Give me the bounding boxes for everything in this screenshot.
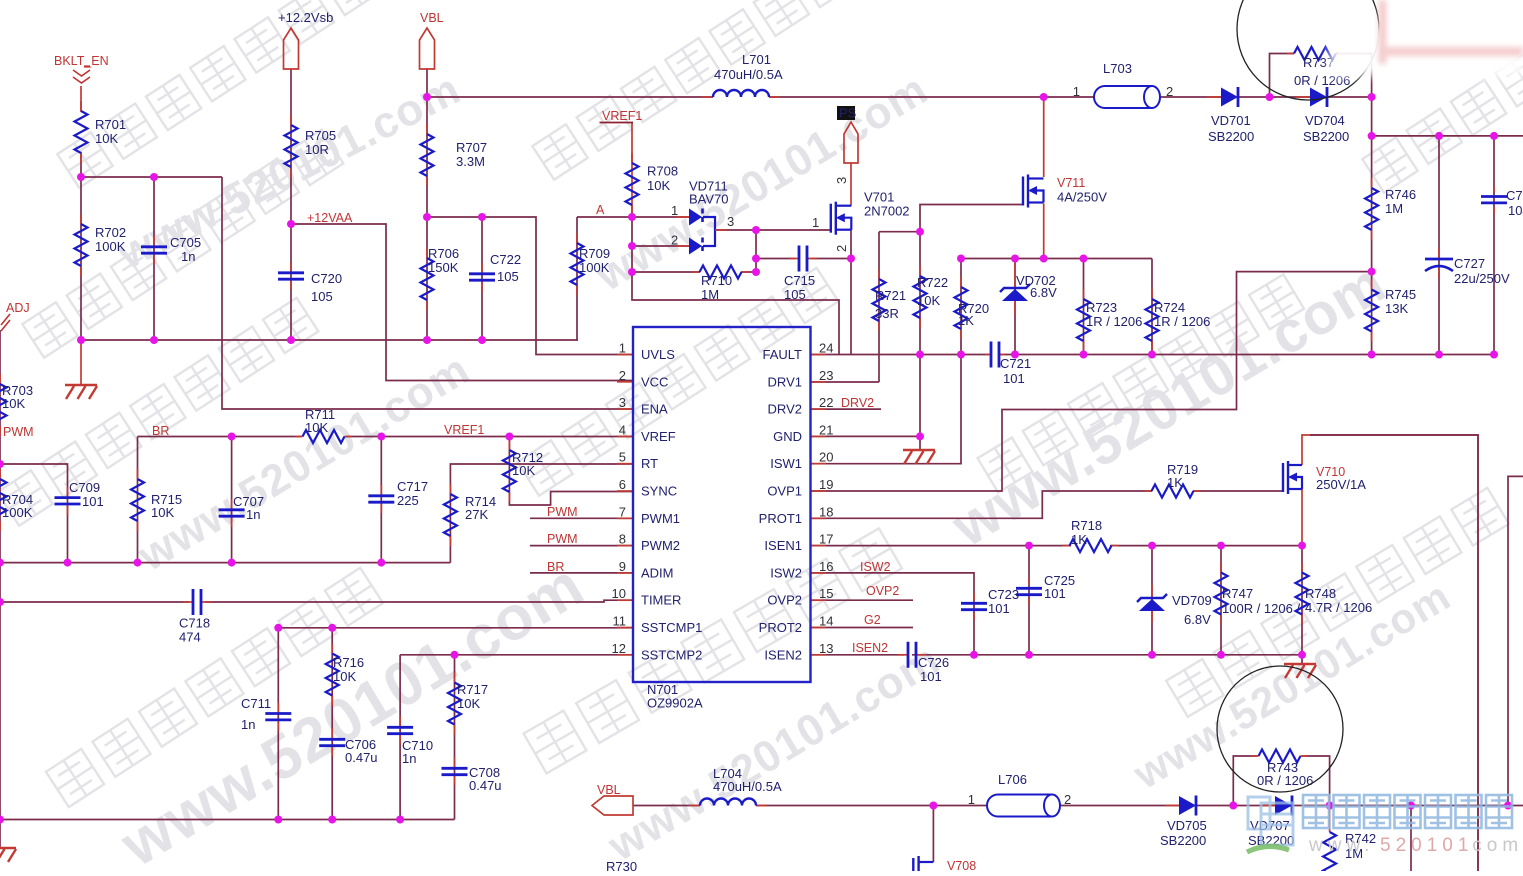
svg-text:C711: C711 [241,696,271,711]
svg-text:R706: R706 [428,246,459,261]
wire C722 branch [481,217,483,340]
svg-text:1K: 1K [1167,475,1183,490]
resistor R747 [1215,563,1301,625]
resistor R724 [1146,289,1211,351]
wire ENA run [222,177,632,409]
svg-text:C726: C726 [918,655,949,670]
svg-text:SB2200: SB2200 [1160,833,1206,848]
svg-text:2: 2 [1064,792,1071,807]
wire C707 column [231,437,233,563]
svg-text:BR: BR [152,424,169,438]
wire SSTCMP1 row [278,627,632,629]
wire R742 drop [1329,806,1331,833]
svg-text:C720: C720 [311,271,342,286]
svg-text:R746: R746 [1385,187,1416,202]
diode VD701 [1207,87,1254,144]
wire gate2 node [879,231,920,233]
capacitor C715 [784,246,817,303]
svg-text:100K: 100K [579,260,610,275]
wire +12.2Vsb column [290,69,292,340]
svg-text:L706: L706 [998,772,1027,787]
svg-text:1: 1 [812,215,819,230]
logo bottom right [1247,795,1523,856]
svg-text:105: 105 [497,269,519,284]
svg-text:24: 24 [819,341,833,356]
wire R721 column [878,232,880,382]
wire R710 right [741,271,756,273]
wire node to C705/ENA branch [81,176,222,178]
wire R723 column [1083,259,1085,355]
power +12.2Vsb [278,10,333,69]
svg-text:3: 3 [834,177,849,184]
svg-text:ADIM: ADIM [641,565,674,580]
capacitor C707 [219,494,264,527]
svg-text:PS: PS [839,106,857,121]
capacitor C721 [985,342,1031,387]
svg-text:R723: R723 [1086,300,1117,315]
svg-text:10K: 10K [305,420,328,435]
wire VREF1 bus [346,436,632,438]
svg-text:PWM: PWM [3,425,34,439]
wire pin3 node down [755,230,757,272]
ground (pin21) [903,449,935,451]
net PS [837,106,858,164]
svg-text:10K: 10K [917,293,940,308]
resistor R703 [0,374,33,436]
svg-text:SB2200: SB2200 [1303,129,1349,144]
wire BKLT_EN to R701 [80,86,82,112]
wire TIMER right [205,600,632,602]
svg-text:100R / 1206 /: 100R / 1206 / [1222,601,1300,616]
wire V710 drain run [1302,435,1478,871]
svg-text:SB2200: SB2200 [1208,129,1254,144]
R743 bypass [1233,756,1257,806]
svg-text:7: 7 [619,504,626,519]
svg-text:470uH/0.5A: 470uH/0.5A [713,779,782,794]
svg-text:R724: R724 [1154,300,1185,315]
svg-text:1n: 1n [181,249,195,264]
svg-text:2: 2 [671,233,678,248]
svg-text:R717: R717 [457,682,488,697]
svg-text:1R / 1206: 1R / 1206 [1086,314,1142,329]
svg-text:14: 14 [819,614,833,629]
blur patch top right [1330,0,1523,76]
svg-text:C715: C715 [784,273,815,288]
svg-text:ISW2: ISW2 [770,565,802,580]
capacitor C725 [1016,573,1075,605]
wire C717 column [380,437,382,563]
svg-text:ISEN2: ISEN2 [852,641,888,655]
wire R746/R745 column [1371,136,1373,355]
svg-text:23: 23 [819,368,833,383]
svg-text:PROT1: PROT1 [759,511,802,526]
wire PWM1 stub [530,517,632,519]
resistor R717 [448,673,488,735]
svg-text:C723: C723 [988,587,1019,602]
svg-text:ISEN2: ISEN2 [764,647,802,662]
wire G2 stub [811,627,913,629]
svg-text:0.47u: 0.47u [469,778,502,793]
wire C725 column [1028,546,1030,655]
wire TIMER left [0,601,189,603]
resistor R737 [1287,47,1350,88]
wire OVP2 stub [811,599,913,601]
svg-text:ISW1: ISW1 [770,456,802,471]
wire R710 left [632,271,700,273]
svg-text:R721: R721 [875,288,906,303]
svg-text:10K: 10K [95,131,118,146]
wire ISEN1 right of R718 [1110,545,1302,547]
svg-text:+12.2Vsb: +12.2Vsb [278,10,333,25]
resistor R743 [1252,750,1314,789]
wire ISEN2 bus [912,654,1302,656]
resistor R715 [131,469,182,531]
ground bus left [81,339,578,341]
power VBL [420,11,444,69]
svg-text:3: 3 [727,214,734,229]
wire ISEN2 left [811,654,904,656]
wire top right drop [1371,97,1373,136]
diode VD705 [1160,796,1207,849]
svg-text:ISW2: ISW2 [860,560,891,574]
wire node A segment [577,216,632,218]
svg-text:10K: 10K [647,178,670,193]
svg-text:R748: R748 [1305,586,1336,601]
wire gnd drop [919,355,921,451]
svg-text:VD704: VD704 [1305,113,1345,128]
svg-text:VREF1: VREF1 [444,423,484,437]
svg-text:100K: 100K [2,505,33,520]
wire V710 drain maroon part [1310,435,1478,871]
svg-text:www.: www. [1308,835,1374,856]
zener diode VD702 [1000,259,1057,316]
resistor R746 [1365,178,1416,240]
svg-text:C709: C709 [69,480,100,495]
svg-text:PWM: PWM [547,532,578,546]
svg-text:DRV2: DRV2 [841,396,874,410]
svg-text:OZ9902A: OZ9902A [647,696,703,711]
svg-text:10K: 10K [512,463,535,478]
svg-text:SSTCMP2: SSTCMP2 [641,647,702,662]
svg-text:R710: R710 [701,273,732,288]
resistor R702 [75,214,127,276]
svg-text:R701: R701 [95,117,126,132]
capacitor C711 [241,696,291,732]
svg-text:UVLS: UVLS [641,347,675,362]
wire right drop 1508 [1508,476,1523,805]
wire R714 to RT [450,464,632,563]
svg-text:1: 1 [1073,84,1080,99]
wire R715 column [137,437,139,563]
svg-text:R709: R709 [579,246,610,261]
svg-text:1n: 1n [246,507,260,522]
svg-text:10K: 10K [151,505,174,520]
svg-text:OVP1: OVP1 [767,484,802,499]
wire R724 column [1151,259,1153,355]
svg-text:R718: R718 [1071,518,1102,533]
resistor R711 [296,407,352,443]
svg-text:11: 11 [613,614,627,629]
resistor R748 [1296,563,1373,625]
svg-text:OVP2: OVP2 [866,584,899,598]
svg-text:VCC: VCC [641,374,668,389]
svg-text:20: 20 [819,450,833,465]
svg-text:100K: 100K [95,239,126,254]
svg-text:10K: 10K [2,396,25,411]
svg-text:VBL: VBL [420,11,444,25]
capacitor C728 [1481,186,1523,218]
svg-text:R730: R730 [606,859,637,871]
capacitor C708 [442,758,502,794]
svg-text:16: 16 [819,559,833,574]
dual diode VD711 [671,179,734,255]
wire V701 source to FAULT [850,230,852,355]
svg-text:33R: 33R [875,306,899,321]
svg-text:+12VAA: +12VAA [307,211,353,225]
R737 bypass [1270,54,1295,98]
transistor Q V711 [1023,175,1107,208]
resistor R721 [873,269,907,331]
sense bus 258 [961,258,1152,260]
resistor R723 [1077,289,1142,351]
wire bottom drop 1411 [1410,806,1412,872]
svg-text:13K: 13K [1385,301,1408,316]
diode VD704 [1296,87,1349,144]
svg-text:1: 1 [619,341,626,356]
svg-text:ENA: ENA [641,402,668,417]
resistor R719 [1145,462,1201,498]
transistor Q V701 [812,177,910,252]
wire DRV1 [811,381,879,383]
port VBL (bottom) [592,783,633,815]
svg-text:0R / 1206: 0R / 1206 [1257,773,1313,788]
svg-text:9: 9 [619,559,626,574]
wire VD709 column [1151,546,1153,655]
resistor R718 [1063,518,1119,552]
svg-text:RT: RT [641,456,658,471]
zener diode VD709 [1137,585,1212,627]
svg-text:101: 101 [920,669,942,684]
svg-text:2: 2 [1166,84,1173,99]
inductor L701 [702,52,783,97]
transistor Q V710 [1283,461,1366,494]
wire ground drop [80,340,82,384]
svg-text:.com: .com [1462,835,1523,856]
resistor R712 [503,440,543,502]
svg-text:SYNC: SYNC [641,484,677,499]
wire +12VAA to VCC [291,224,632,381]
resistor R720 [955,277,990,339]
svg-text:150K: 150K [428,260,459,275]
svg-text:VD709: VD709 [1172,593,1212,608]
svg-text:101: 101 [82,494,104,509]
svg-text:R708: R708 [647,164,678,179]
inductor L703 [1073,61,1173,108]
wire VBL column [426,68,428,340]
svg-text:PWM: PWM [547,505,578,519]
svg-text:1R / 1206: 1R / 1206 [1154,314,1210,329]
svg-text:250V/1A: 250V/1A [1316,477,1366,492]
svg-text:SSTCMP1: SSTCMP1 [641,620,702,635]
resistor R707 [421,124,488,186]
svg-text:225: 225 [397,493,419,508]
svg-text:PROT2: PROT2 [759,620,802,635]
diode VD707 [1248,796,1294,849]
svg-text:C718: C718 [179,616,210,631]
svg-text:L703: L703 [1103,61,1132,76]
svg-text:ISEN1: ISEN1 [764,538,802,553]
resistor R701 [75,101,127,163]
left rail [0,330,1,848]
ground (left) [65,384,97,386]
svg-text:8: 8 [619,532,626,547]
svg-text:4.7R / 1206: 4.7R / 1206 [1305,600,1372,615]
wire PWM2 stub [530,545,632,547]
svg-text:A: A [596,203,605,217]
svg-text:VD701: VD701 [1211,113,1251,128]
wire BR bus [138,436,302,438]
svg-text:6: 6 [619,477,626,492]
svg-text:1n: 1n [402,751,416,766]
svg-text:10R: 10R [305,142,329,157]
wire GND pin21 [811,435,920,437]
resistor R709 [571,233,611,295]
svg-text:6.8V: 6.8V [1184,612,1211,627]
svg-text:R707: R707 [456,140,487,155]
wire VD702 column [1014,259,1016,355]
svg-text:PWM2: PWM2 [641,538,680,553]
wire R722 column [919,232,921,355]
svg-text:27K: 27K [465,507,488,522]
svg-text:0.47u: 0.47u [345,750,378,765]
svg-text:10: 10 [612,586,626,601]
svg-text:470uH/0.5A: 470uH/0.5A [714,67,783,82]
capacitor C720 [278,262,342,304]
svg-text:DRV1: DRV1 [768,374,802,389]
capacitor C718 [179,589,211,645]
capacitor C717 [368,479,428,513]
svg-text:PWM1: PWM1 [641,511,680,526]
svg-text:105: 105 [784,287,806,302]
wire VD711 pin1 [632,216,689,218]
svg-text:C717: C717 [397,479,428,494]
top rail [427,96,713,98]
resistor R706 [421,246,460,310]
wire VD711 pin3 to V701 gate [715,229,831,231]
svg-text:520101: 520101 [1380,835,1473,856]
capacitor C726 [898,642,949,684]
resistor R716 [326,644,364,706]
wire OVP1 run [811,272,1372,491]
svg-text:VD705: VD705 [1167,818,1207,833]
svg-text:12: 12 [612,641,626,656]
svg-text:1K: 1K [958,313,974,328]
svg-text:5: 5 [619,450,626,465]
svg-text:OVP2: OVP2 [767,593,802,608]
capacitor C705 [141,235,201,264]
wire R717/C708 column [454,655,456,820]
port ADJ [1,301,30,331]
svg-text:3.3M: 3.3M [456,154,485,169]
svg-text:4: 4 [619,422,626,437]
svg-text:101: 101 [988,601,1010,616]
wire C711 column [277,628,279,820]
wire VD711 pin2 [632,245,689,247]
wire R702 branch [80,177,82,340]
resistor R708 [626,153,679,215]
wire node A down to R710/FAULT loop [632,217,839,355]
wire BR stub [530,572,632,574]
wire C715 left [756,258,795,260]
svg-text:DRV2: DRV2 [768,402,802,417]
resistor R714 [444,484,496,546]
wire R712 column [508,437,510,494]
svg-text:C727: C727 [1454,256,1485,271]
svg-text:101: 101 [1003,371,1025,386]
wire V710 source [1301,489,1303,546]
op-amp U N701 OZ9902A [612,327,834,711]
inductor L706 [968,772,1071,817]
annotation circle (R737) [1237,0,1379,100]
svg-text:G2: G2 [864,613,881,627]
svg-text:C7: C7 [1506,188,1523,203]
svg-text:R745: R745 [1385,287,1416,302]
wire R720 column / ISW1 [811,259,961,464]
resistor R742 [1323,831,1376,874]
svg-text:10K: 10K [333,669,356,684]
svg-text:10K: 10K [457,696,480,711]
svg-text:BKLT_EN: BKLT_EN [54,54,109,68]
svg-text:3: 3 [619,395,626,410]
svg-text:BAV70: BAV70 [689,192,729,207]
transistor Q V708 [913,856,976,873]
svg-text:C705: C705 [170,235,201,250]
wire FAULT row [811,354,989,356]
resistor R705 [285,115,337,177]
svg-text:V711: V711 [1057,176,1085,190]
wire C727 column [1438,136,1440,355]
wire R747 column [1220,546,1222,655]
svg-text:L701: L701 [742,52,771,67]
svg-text:21: 21 [819,422,833,437]
wire V708 drain [932,806,934,863]
wire C715 right [811,258,851,260]
svg-text:VBL: VBL [597,783,621,797]
capacitor C723 [961,587,1019,620]
capacitor C709 [55,480,104,515]
wire C728 column [1493,136,1495,355]
svg-text:19: 19 [819,477,833,492]
svg-text:1K: 1K [1071,532,1087,547]
wire PWM/C709 run [0,464,68,563]
svg-text:FAULT: FAULT [763,347,803,362]
svg-text:22u/250V: 22u/250V [1454,271,1510,286]
svg-text:2: 2 [619,368,626,383]
svg-text:1n: 1n [241,717,255,732]
resistor R710 [693,266,749,303]
wire A divider bus [427,217,632,355]
resistor R704 [0,469,33,531]
wire DRV2 stub [811,408,881,410]
svg-text:1M: 1M [701,287,719,302]
svg-text:C722: C722 [490,252,521,267]
svg-text:GND: GND [773,429,802,444]
bus 562 [0,562,450,564]
svg-text:R702: R702 [95,225,126,240]
wire FAULT row right of C721 [1000,354,1494,356]
wire C705 branch [153,177,155,340]
svg-text:474: 474 [179,630,201,645]
